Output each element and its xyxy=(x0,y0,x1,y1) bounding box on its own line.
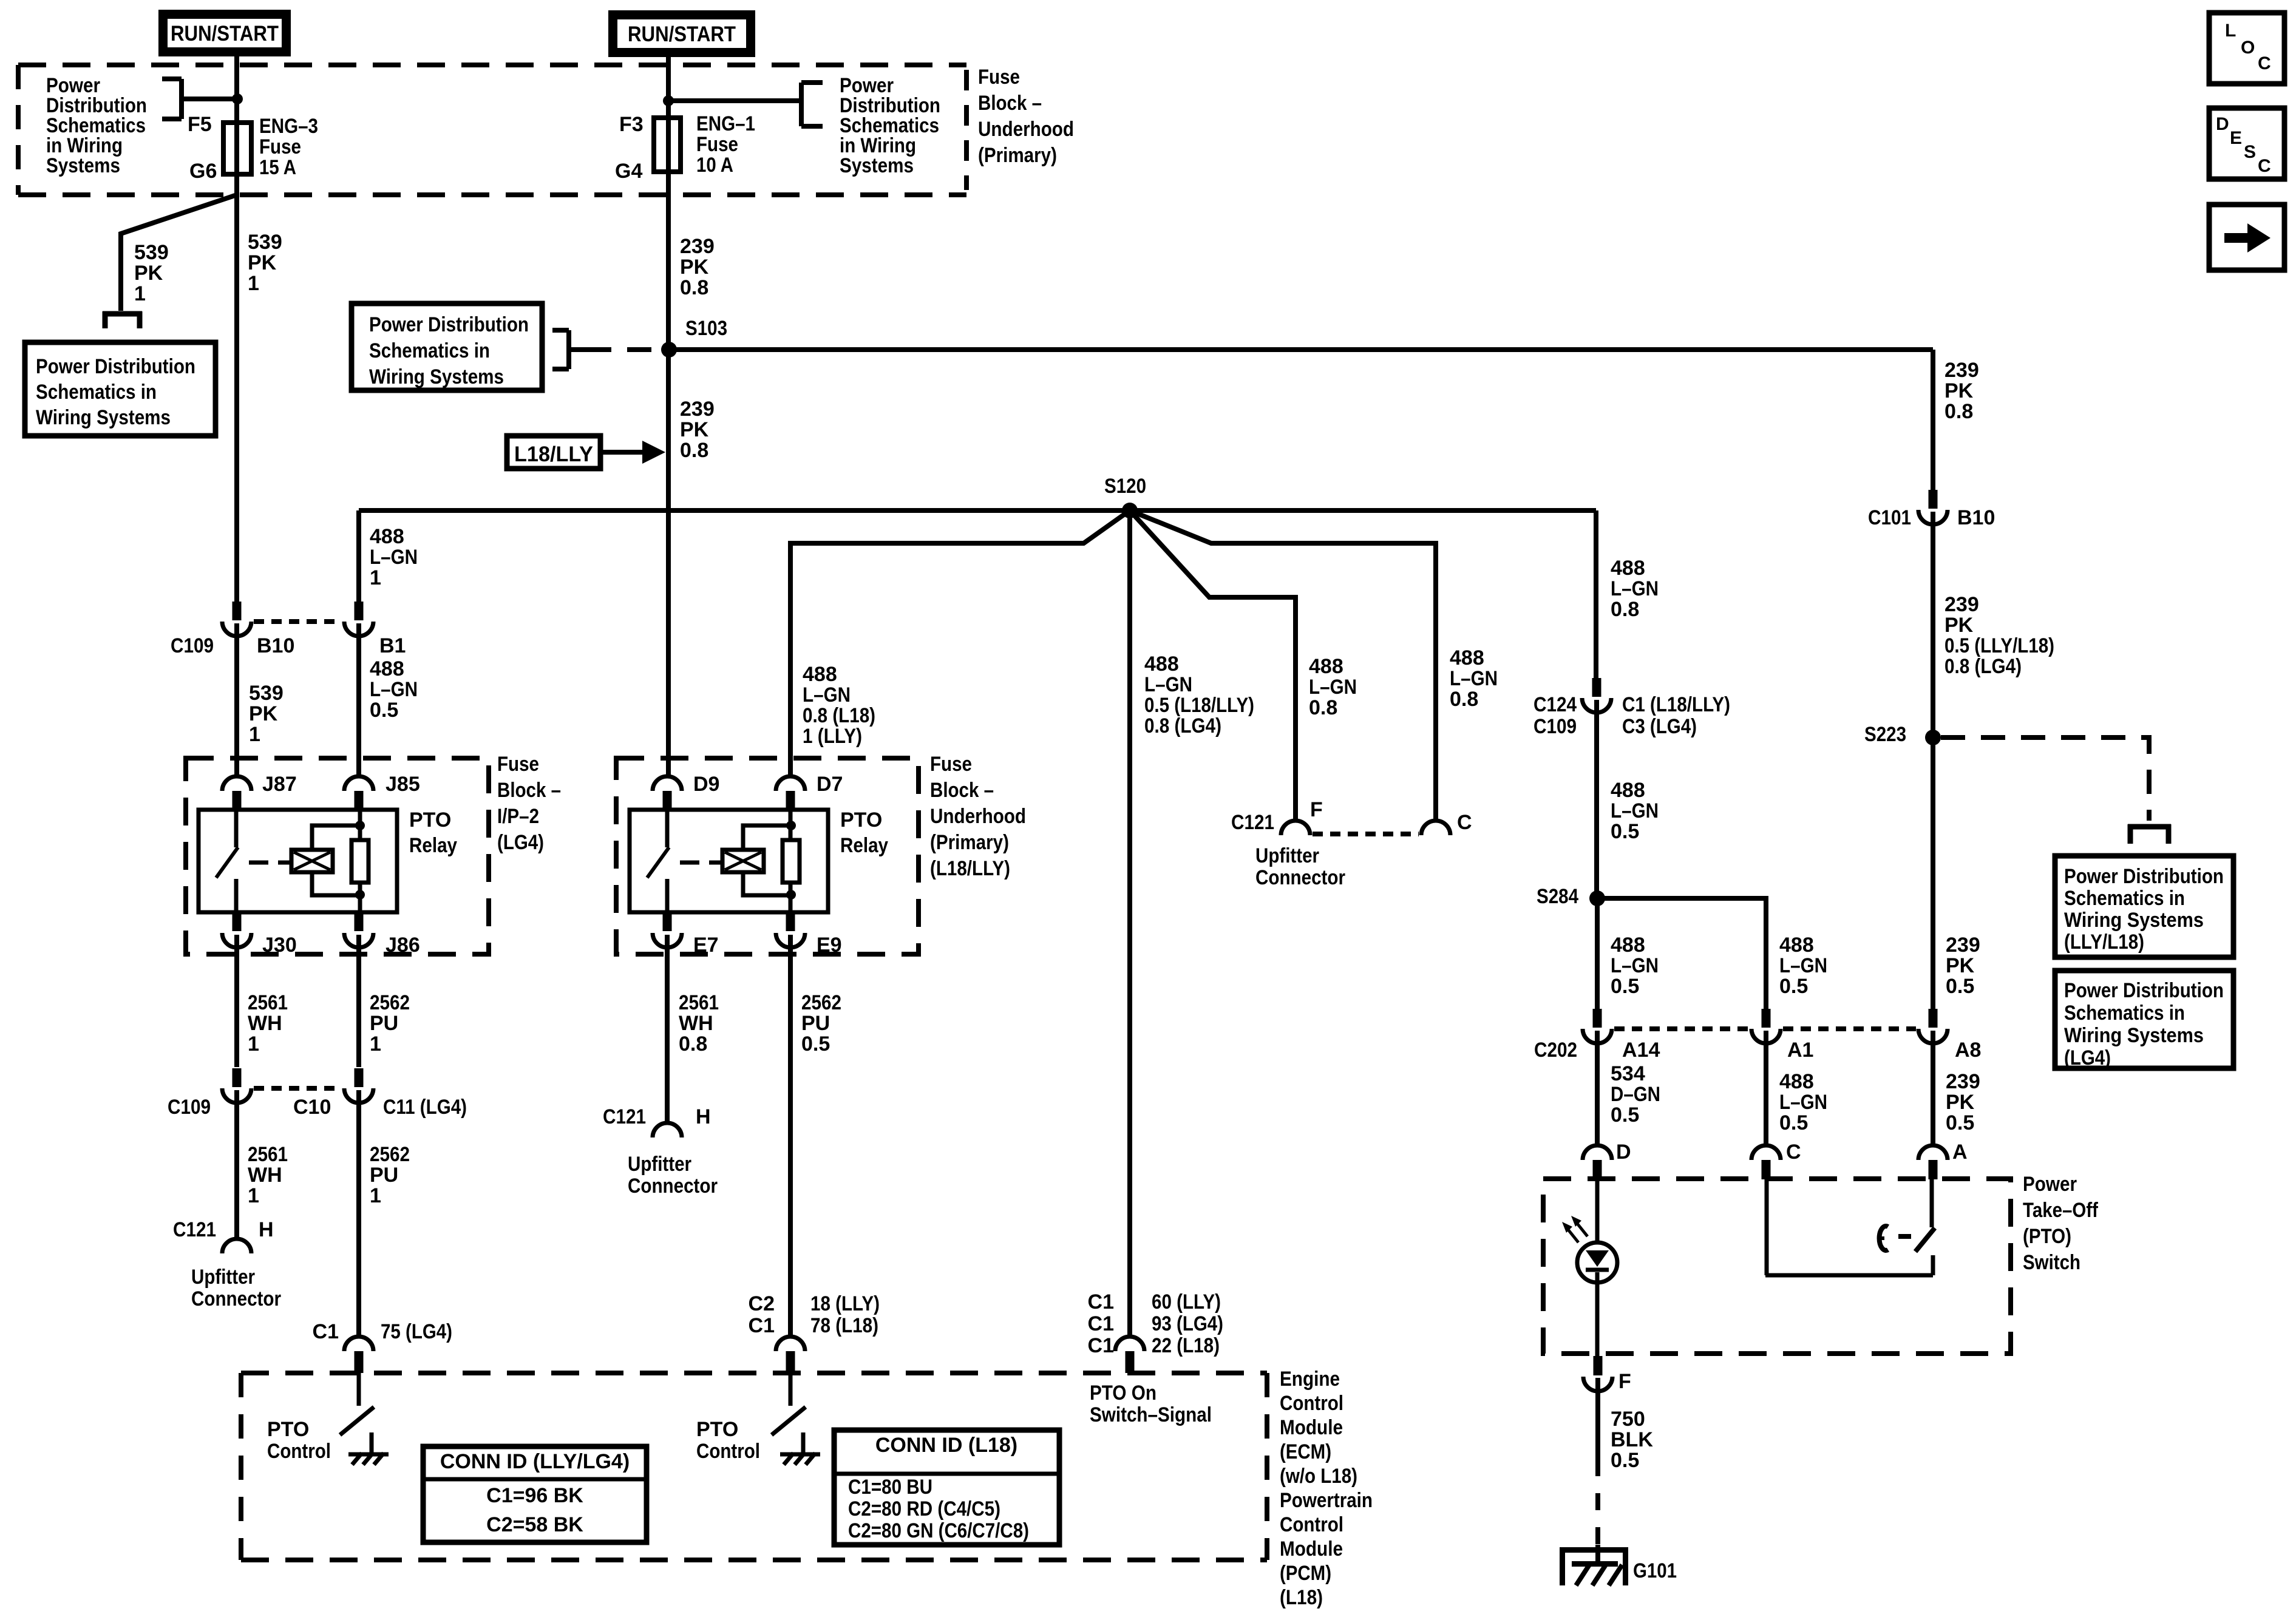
svg-text:PTO: PTO xyxy=(409,808,451,832)
PTO relay box (middle) xyxy=(630,810,828,912)
svg-text:D–GN: D–GN xyxy=(1611,1083,1660,1106)
svg-text:C: C xyxy=(1786,1141,1801,1164)
svg-text:Underhood: Underhood xyxy=(978,118,1074,141)
fuse block dashed box (Fuse Block - Underhood outline) xyxy=(18,63,966,67)
splice S284 xyxy=(1589,890,1605,906)
svg-text:239: 239 xyxy=(1944,359,1979,382)
svg-text:Block –: Block – xyxy=(978,92,1042,115)
svg-text:Fuse: Fuse xyxy=(930,753,972,776)
svg-text:488: 488 xyxy=(1450,646,1484,670)
svg-text:C121: C121 xyxy=(173,1218,216,1241)
svg-text:(L18/LLY): (L18/LLY) xyxy=(930,857,1010,880)
svg-text:Schematics in: Schematics in xyxy=(369,339,490,362)
svg-text:(ECM): (ECM) xyxy=(1280,1440,1331,1463)
relay resistor (middle relay) xyxy=(783,840,800,883)
svg-text:239: 239 xyxy=(1944,593,1979,616)
splice S120 xyxy=(1122,503,1138,518)
connector J87 xyxy=(222,776,251,791)
PTO relay box (left) xyxy=(199,810,397,912)
svg-text:F: F xyxy=(1618,1370,1631,1393)
svg-text:B1: B1 xyxy=(379,634,406,657)
wire A1 to C xyxy=(1764,1031,1768,1145)
svg-text:Schematics in: Schematics in xyxy=(2064,887,2185,910)
svg-text:Fuse: Fuse xyxy=(259,135,301,158)
svg-text:Upfitter: Upfitter xyxy=(628,1153,691,1176)
connector C101 B10 xyxy=(1929,490,1938,509)
PTO switch blade and contacts xyxy=(1765,1179,1769,1275)
svg-text:78 (L18): 78 (L18) xyxy=(810,1314,878,1337)
svg-text:239: 239 xyxy=(680,235,715,258)
svg-text:L: L xyxy=(2225,21,2236,41)
wire 488 L-GN from S120 bus down at right xyxy=(1594,510,1598,678)
svg-text:PK: PK xyxy=(249,702,278,725)
svg-text:PK: PK xyxy=(680,418,709,441)
svg-text:L18/LLY: L18/LLY xyxy=(514,442,593,466)
wire 239 PK from S103 down to relay D9 xyxy=(666,350,671,776)
svg-text:C101: C101 xyxy=(1868,506,1911,529)
wire S120 branch down-left to D7 xyxy=(790,510,1130,776)
svg-text:534: 534 xyxy=(1611,1062,1645,1085)
svg-text:239: 239 xyxy=(680,398,715,421)
bracket to Power Distribution Schematics (middle) xyxy=(799,83,804,126)
svg-text:C109: C109 xyxy=(168,1096,211,1119)
svg-text:Power: Power xyxy=(2023,1173,2077,1196)
svg-text:C109: C109 xyxy=(171,634,214,657)
svg-text:F3: F3 xyxy=(619,113,644,136)
svg-text:Power Distribution: Power Distribution xyxy=(2064,979,2224,1002)
svg-text:0.8 (L18): 0.8 (L18) xyxy=(803,704,875,727)
svg-text:75 (LG4): 75 (LG4) xyxy=(381,1320,452,1343)
svg-text:539: 539 xyxy=(249,682,284,705)
svg-text:L–GN: L–GN xyxy=(1611,799,1659,822)
ground G101 xyxy=(1560,1547,1628,1553)
svg-text:C: C xyxy=(2258,53,2271,73)
wire S120 elbow down at left to B1 xyxy=(356,510,361,602)
svg-text:PU: PU xyxy=(370,1012,398,1035)
svg-text:2561: 2561 xyxy=(248,991,288,1014)
svg-text:WH: WH xyxy=(248,1164,282,1187)
svg-text:18 (LLY): 18 (LLY) xyxy=(810,1292,880,1315)
svg-text:0.5: 0.5 xyxy=(1779,1111,1808,1134)
svg-text:488: 488 xyxy=(370,657,404,680)
node branch dot at F5 feed xyxy=(232,93,243,104)
svg-text:L–GN: L–GN xyxy=(1144,673,1192,696)
svg-text:C1: C1 xyxy=(1088,1312,1114,1335)
svg-text:Wiring Systems: Wiring Systems xyxy=(36,406,171,429)
connector C1 into ECM (PTO On) xyxy=(1115,1337,1144,1351)
svg-text:488: 488 xyxy=(370,525,404,548)
svg-text:E9: E9 xyxy=(817,934,842,957)
relay resistor (left relay) xyxy=(352,840,369,883)
svg-text:Block –: Block – xyxy=(497,779,561,802)
svg-text:H: H xyxy=(259,1218,274,1241)
svg-text:O: O xyxy=(2241,38,2255,58)
svg-text:E: E xyxy=(2230,128,2242,148)
svg-text:488: 488 xyxy=(1144,653,1179,676)
connector D9 xyxy=(653,776,682,791)
svg-text:C1=96 BK: C1=96 BK xyxy=(486,1484,583,1507)
svg-text:Block –: Block – xyxy=(930,779,994,802)
wire 2561 WH below C10 xyxy=(234,1090,239,1239)
svg-text:Relay: Relay xyxy=(409,834,457,857)
box Power Distribution Schematics (LLY/L18) xyxy=(2055,856,2233,957)
svg-text:(L18): (L18) xyxy=(1280,1586,1323,1609)
svg-text:539: 539 xyxy=(134,241,169,264)
svg-text:J86: J86 xyxy=(385,934,420,957)
svg-text:0.8 (LG4): 0.8 (LG4) xyxy=(1944,655,2022,678)
svg-text:CONN ID (L18): CONN ID (L18) xyxy=(875,1434,1017,1457)
svg-text:1: 1 xyxy=(248,1184,259,1207)
bracket from S103 box xyxy=(566,330,571,369)
engine tag box L18/LLY with arrow xyxy=(507,436,600,469)
svg-text:Underhood: Underhood xyxy=(930,805,1026,828)
svg-text:Connector: Connector xyxy=(628,1175,718,1198)
svg-text:Wiring Systems: Wiring Systems xyxy=(369,365,504,388)
connector C109 B1 xyxy=(355,602,364,620)
splice S103 xyxy=(661,342,677,358)
wire 239 PK from G4 to S103 xyxy=(666,172,671,349)
svg-text:PK: PK xyxy=(248,251,277,274)
bracket to Power Distribution Schematics (left) xyxy=(179,79,184,119)
wire RUN/START middle to fuse F3 xyxy=(666,57,671,118)
svg-text:RUN/START: RUN/START xyxy=(628,22,736,46)
wire 2561 WH below E7 xyxy=(665,935,670,1124)
svg-text:1: 1 xyxy=(249,723,260,746)
svg-text:60 (LLY): 60 (LLY) xyxy=(1152,1290,1221,1314)
svg-text:L–GN: L–GN xyxy=(1309,676,1357,699)
wire from LED to connector F xyxy=(1594,1356,1603,1375)
PTO switch hook contact xyxy=(1880,1226,1888,1250)
svg-text:C202: C202 xyxy=(1534,1039,1577,1062)
svg-text:(LG4): (LG4) xyxy=(497,831,544,854)
relay actuator dashed link (middle relay) xyxy=(680,861,721,865)
svg-text:Module: Module xyxy=(1280,1416,1343,1439)
svg-text:L–GN: L–GN xyxy=(1611,954,1659,977)
svg-text:PU: PU xyxy=(801,1012,830,1035)
svg-text:(PTO): (PTO) xyxy=(2023,1225,2071,1248)
svg-text:C1 (L18/LLY): C1 (L18/LLY) xyxy=(1622,693,1730,716)
PTO Control ground (middle) xyxy=(801,1432,806,1453)
svg-text:C10: C10 xyxy=(293,1096,331,1119)
dashed connector row C121 xyxy=(1313,832,1419,836)
ignition feed RUN/START (left) xyxy=(158,10,291,56)
svg-text:0.8: 0.8 xyxy=(1450,688,1478,711)
svg-text:0.8: 0.8 xyxy=(1944,400,1973,423)
svg-text:C3 (LG4): C3 (LG4) xyxy=(1622,715,1697,738)
svg-text:C1: C1 xyxy=(1088,1290,1114,1314)
connector C2/C1 into ECM (18/78) xyxy=(776,1337,805,1351)
svg-text:I/P–2: I/P–2 xyxy=(497,805,539,828)
svg-text:L–GN: L–GN xyxy=(803,683,851,707)
svg-text:1 (LLY): 1 (LLY) xyxy=(803,725,862,748)
svg-text:C1: C1 xyxy=(313,1320,339,1343)
wire RUN/START left to fuse F5 xyxy=(234,56,239,123)
svg-text:PK: PK xyxy=(1946,1091,1975,1114)
connector C121 F (upfitter) xyxy=(1281,821,1310,835)
svg-text:H: H xyxy=(696,1105,711,1128)
legend box LOC xyxy=(2209,13,2284,84)
svg-text:C2: C2 xyxy=(749,1292,775,1315)
svg-text:J85: J85 xyxy=(385,773,420,796)
wire 239 PK elbow down to C101 xyxy=(1931,350,1935,490)
svg-text:WH: WH xyxy=(248,1012,282,1035)
svg-text:0.8: 0.8 xyxy=(679,1032,707,1056)
connector A into PTO switch xyxy=(1918,1145,1948,1160)
connector C109 B10 xyxy=(233,602,242,620)
PTO Control switch (middle) inside ECM xyxy=(789,1373,793,1406)
svg-text:0.8: 0.8 xyxy=(1309,696,1337,719)
svg-text:CONN ID (LLY/LG4): CONN ID (LLY/LG4) xyxy=(440,1450,630,1473)
dashed link S223 to schematic bracket xyxy=(1941,737,2149,821)
svg-text:239: 239 xyxy=(1946,934,1980,957)
svg-text:488: 488 xyxy=(1779,1070,1814,1093)
relay coil loop wires (left relay) xyxy=(312,825,358,850)
svg-text:488: 488 xyxy=(1309,655,1343,678)
svg-text:PTO On: PTO On xyxy=(1090,1381,1156,1405)
svg-text:10 A: 10 A xyxy=(696,154,733,177)
svg-text:0.8: 0.8 xyxy=(680,276,708,299)
svg-text:A8: A8 xyxy=(1955,1039,1981,1062)
LED emission arrows xyxy=(1566,1227,1578,1242)
svg-text:RUN/START: RUN/START xyxy=(171,22,279,46)
relay switch arm (middle relay) xyxy=(665,810,670,847)
svg-text:PTO: PTO xyxy=(696,1418,738,1441)
svg-text:WH: WH xyxy=(679,1012,713,1035)
svg-text:Power Distribution: Power Distribution xyxy=(36,355,195,378)
connector C121 H (middle upfitter) xyxy=(653,1123,682,1137)
svg-text:539: 539 xyxy=(248,231,282,254)
ignition feed RUN/START (middle) xyxy=(608,10,755,57)
svg-text:Relay: Relay xyxy=(840,834,888,857)
svg-text:Control: Control xyxy=(1280,1513,1343,1536)
wire branch to schematic bracket (middle) xyxy=(668,98,801,103)
relay coil loop wires (middle relay) xyxy=(743,825,789,850)
svg-text:Fuse: Fuse xyxy=(497,753,539,776)
connector C109 C11 xyxy=(355,1068,364,1087)
svg-text:Module: Module xyxy=(1280,1537,1343,1561)
svg-text:C1: C1 xyxy=(749,1314,775,1337)
wire through fuse F3 xyxy=(666,118,671,172)
wire A14 to D xyxy=(1595,1031,1600,1145)
svg-text:2561: 2561 xyxy=(679,991,719,1014)
wire 2562 PU below C11 xyxy=(356,1090,361,1337)
svg-text:C: C xyxy=(1457,811,1472,834)
wire 239 PK below C101 to S223 xyxy=(1931,512,1935,1009)
svg-text:D9: D9 xyxy=(693,773,719,796)
connector C1 into ECM (75 LG4) xyxy=(344,1337,373,1351)
connector drop bracket to Power Distribution schematic (left) xyxy=(103,311,142,317)
svg-text:C2=80 GN (C6/C7/C8): C2=80 GN (C6/C7/C8) xyxy=(848,1519,1029,1542)
svg-text:PTO: PTO xyxy=(840,808,882,832)
svg-text:750: 750 xyxy=(1611,1408,1645,1431)
svg-text:C11 (LG4): C11 (LG4) xyxy=(383,1096,467,1119)
svg-text:G101: G101 xyxy=(1633,1559,1677,1582)
svg-text:S223: S223 xyxy=(1864,723,1906,746)
svg-text:Upfitter: Upfitter xyxy=(1255,844,1319,867)
svg-text:488: 488 xyxy=(803,663,837,686)
dashed wire link to S103 xyxy=(587,347,659,352)
svg-text:Switch–Signal: Switch–Signal xyxy=(1090,1403,1212,1426)
PTO indicator LED lamp xyxy=(1595,1179,1600,1242)
relay right leg wires (middle relay) xyxy=(789,810,793,840)
PTO Control switch (left) inside ECM xyxy=(357,1373,361,1406)
svg-text:2561: 2561 xyxy=(248,1143,288,1166)
svg-text:(w/o L18): (w/o L18) xyxy=(1280,1465,1357,1488)
svg-text:1: 1 xyxy=(248,1032,259,1056)
connector D7 xyxy=(776,776,805,791)
wire 488 L-GN below B1 xyxy=(356,623,361,776)
svg-text:Switch: Switch xyxy=(2023,1251,2080,1274)
ECM dashed box xyxy=(241,1371,1267,1375)
connector C202 A8 xyxy=(1929,1009,1938,1028)
svg-text:1: 1 xyxy=(370,1032,381,1056)
svg-text:Wiring Systems: Wiring Systems xyxy=(2064,1024,2204,1047)
wire S120 branch to upfitter F xyxy=(1130,510,1296,821)
svg-text:488: 488 xyxy=(1611,779,1645,802)
svg-text:ENG–3: ENG–3 xyxy=(259,115,318,138)
svg-text:S: S xyxy=(2244,142,2256,162)
svg-text:Control: Control xyxy=(1280,1392,1343,1415)
wire below S284 xyxy=(1595,898,1600,1009)
svg-text:PK: PK xyxy=(1944,379,1974,402)
svg-text:0.5: 0.5 xyxy=(1611,1449,1639,1472)
svg-text:J87: J87 xyxy=(262,773,297,796)
svg-text:S103: S103 xyxy=(685,317,727,340)
svg-text:0.5: 0.5 xyxy=(1779,975,1808,998)
wire S120 branch to upfitter C xyxy=(1130,510,1436,821)
svg-text:0.5: 0.5 xyxy=(1611,975,1639,998)
svg-text:B10: B10 xyxy=(1957,506,1995,529)
PTO switch dashed box xyxy=(1543,1179,2011,1354)
svg-text:(Primary): (Primary) xyxy=(930,831,1009,854)
svg-text:Control: Control xyxy=(267,1440,331,1463)
wire 539 PK branch diagonal from G6 xyxy=(121,195,237,311)
wire 539 PK main (below G6) xyxy=(234,174,239,602)
svg-text:PK: PK xyxy=(680,256,709,279)
wire S284 branch right xyxy=(1597,898,1766,1009)
connector C into PTO switch xyxy=(1751,1145,1781,1160)
svg-text:Engine: Engine xyxy=(1280,1368,1340,1391)
wire 488 L-GN below C124 xyxy=(1594,700,1599,898)
wire 2562 PU below J86 xyxy=(356,935,361,1067)
svg-text:F5: F5 xyxy=(188,113,212,136)
svg-text:F: F xyxy=(1310,798,1323,821)
relay right leg wires (left relay) xyxy=(358,810,362,840)
wire 2561 WH below J30 xyxy=(234,935,239,1067)
svg-text:L–GN: L–GN xyxy=(1450,667,1498,690)
legend box forward arrow xyxy=(2209,205,2284,270)
connector J86 xyxy=(355,912,364,931)
svg-text:0.5 (L18/LLY): 0.5 (L18/LLY) xyxy=(1144,694,1254,717)
svg-text:L–GN: L–GN xyxy=(1611,577,1659,600)
svg-text:Schematics in: Schematics in xyxy=(2064,1002,2185,1025)
svg-text:(LLY/L18): (LLY/L18) xyxy=(2064,931,2144,954)
svg-text:PTO: PTO xyxy=(267,1418,309,1441)
wire S120 horizontal bus xyxy=(359,508,1596,513)
svg-text:(LG4): (LG4) xyxy=(2064,1046,2111,1070)
svg-text:S120: S120 xyxy=(1104,475,1146,498)
svg-text:93 (LG4): 93 (LG4) xyxy=(1152,1312,1223,1335)
connector C121 C (upfitter) xyxy=(1421,821,1450,835)
svg-text:0.8 (LG4): 0.8 (LG4) xyxy=(1144,714,1221,737)
svg-text:Systems: Systems xyxy=(840,154,914,177)
svg-text:488: 488 xyxy=(1779,934,1814,957)
svg-text:L–GN: L–GN xyxy=(1779,1091,1827,1114)
box Power Distribution Schematics in Wiring Systems (bottom left) xyxy=(25,342,216,436)
wire S120 down to PTO On switch signal xyxy=(1127,510,1132,1337)
svg-text:2562: 2562 xyxy=(370,1143,410,1166)
svg-text:0.8: 0.8 xyxy=(680,439,708,462)
svg-text:PK: PK xyxy=(134,262,163,285)
fuse block underhood dashed box xyxy=(616,758,919,954)
dashed connector row C109 xyxy=(254,619,342,624)
relay switch arm (left relay) xyxy=(234,810,239,847)
svg-text:Power Distribution: Power Distribution xyxy=(369,313,529,336)
PTO Control ground (left) xyxy=(370,1432,374,1453)
svg-text:0.5: 0.5 xyxy=(1611,820,1639,843)
svg-text:Wiring Systems: Wiring Systems xyxy=(2064,909,2204,932)
svg-text:Schematics in: Schematics in xyxy=(36,381,157,404)
dashed connector row C109 (lower) xyxy=(254,1086,342,1091)
svg-text:1: 1 xyxy=(248,272,259,295)
svg-text:C1=80 BU: C1=80 BU xyxy=(848,1476,932,1499)
svg-text:G6: G6 xyxy=(189,160,217,183)
connector C202 A1 xyxy=(1762,1009,1771,1028)
connector drop bracket (S223) xyxy=(2128,824,2171,830)
svg-text:0.5: 0.5 xyxy=(370,699,398,722)
svg-text:B10: B10 xyxy=(257,634,294,657)
arrow from L18/LLY tag to 239 PK wire xyxy=(600,450,645,455)
svg-text:(Primary): (Primary) xyxy=(978,144,1057,167)
relay node dots (middle relay) xyxy=(786,821,796,830)
svg-text:D: D xyxy=(2216,114,2229,134)
svg-text:Take–Off: Take–Off xyxy=(2023,1199,2099,1222)
box Power Distribution Schematics (LG4) xyxy=(2055,971,2233,1068)
svg-text:L–GN: L–GN xyxy=(370,678,418,701)
splice S223 xyxy=(1925,730,1941,745)
svg-text:L–GN: L–GN xyxy=(370,546,418,569)
svg-text:0.5 (LLY/L18): 0.5 (LLY/L18) xyxy=(1944,634,2054,657)
svg-text:488: 488 xyxy=(1611,557,1645,580)
connector C109 C10 xyxy=(233,1068,242,1087)
fuse F5 ENG-3 15A xyxy=(223,123,251,174)
svg-text:PK: PK xyxy=(1944,614,1974,637)
svg-text:Connector: Connector xyxy=(1255,866,1345,889)
svg-text:G4: G4 xyxy=(615,160,642,183)
svg-text:C124: C124 xyxy=(1533,693,1577,716)
relay coil (middle relay) xyxy=(722,850,764,872)
svg-text:488: 488 xyxy=(1611,934,1645,957)
fuse F3 ENG-1 10A xyxy=(654,118,681,172)
connector C202 A14 xyxy=(1593,1009,1602,1028)
svg-text:Systems: Systems xyxy=(46,154,120,177)
wire branch to schematic bracket (left) xyxy=(182,97,237,101)
svg-text:22 (L18): 22 (L18) xyxy=(1152,1334,1220,1357)
table CONN ID (LLY/LG4) xyxy=(423,1446,647,1542)
wire 539 PK below B10 xyxy=(234,623,239,776)
node branch dot at F3 feed xyxy=(663,95,674,106)
svg-text:Connector: Connector xyxy=(191,1287,281,1310)
svg-text:BLK: BLK xyxy=(1611,1428,1653,1451)
svg-text:1: 1 xyxy=(134,282,146,305)
svg-text:1: 1 xyxy=(370,1184,381,1207)
svg-text:2562: 2562 xyxy=(801,991,841,1014)
svg-text:E7: E7 xyxy=(693,934,719,957)
svg-text:D7: D7 xyxy=(817,773,843,796)
svg-text:C1: C1 xyxy=(1088,1334,1114,1357)
legend box DESC xyxy=(2209,108,2284,179)
svg-text:239: 239 xyxy=(1946,1070,1980,1093)
